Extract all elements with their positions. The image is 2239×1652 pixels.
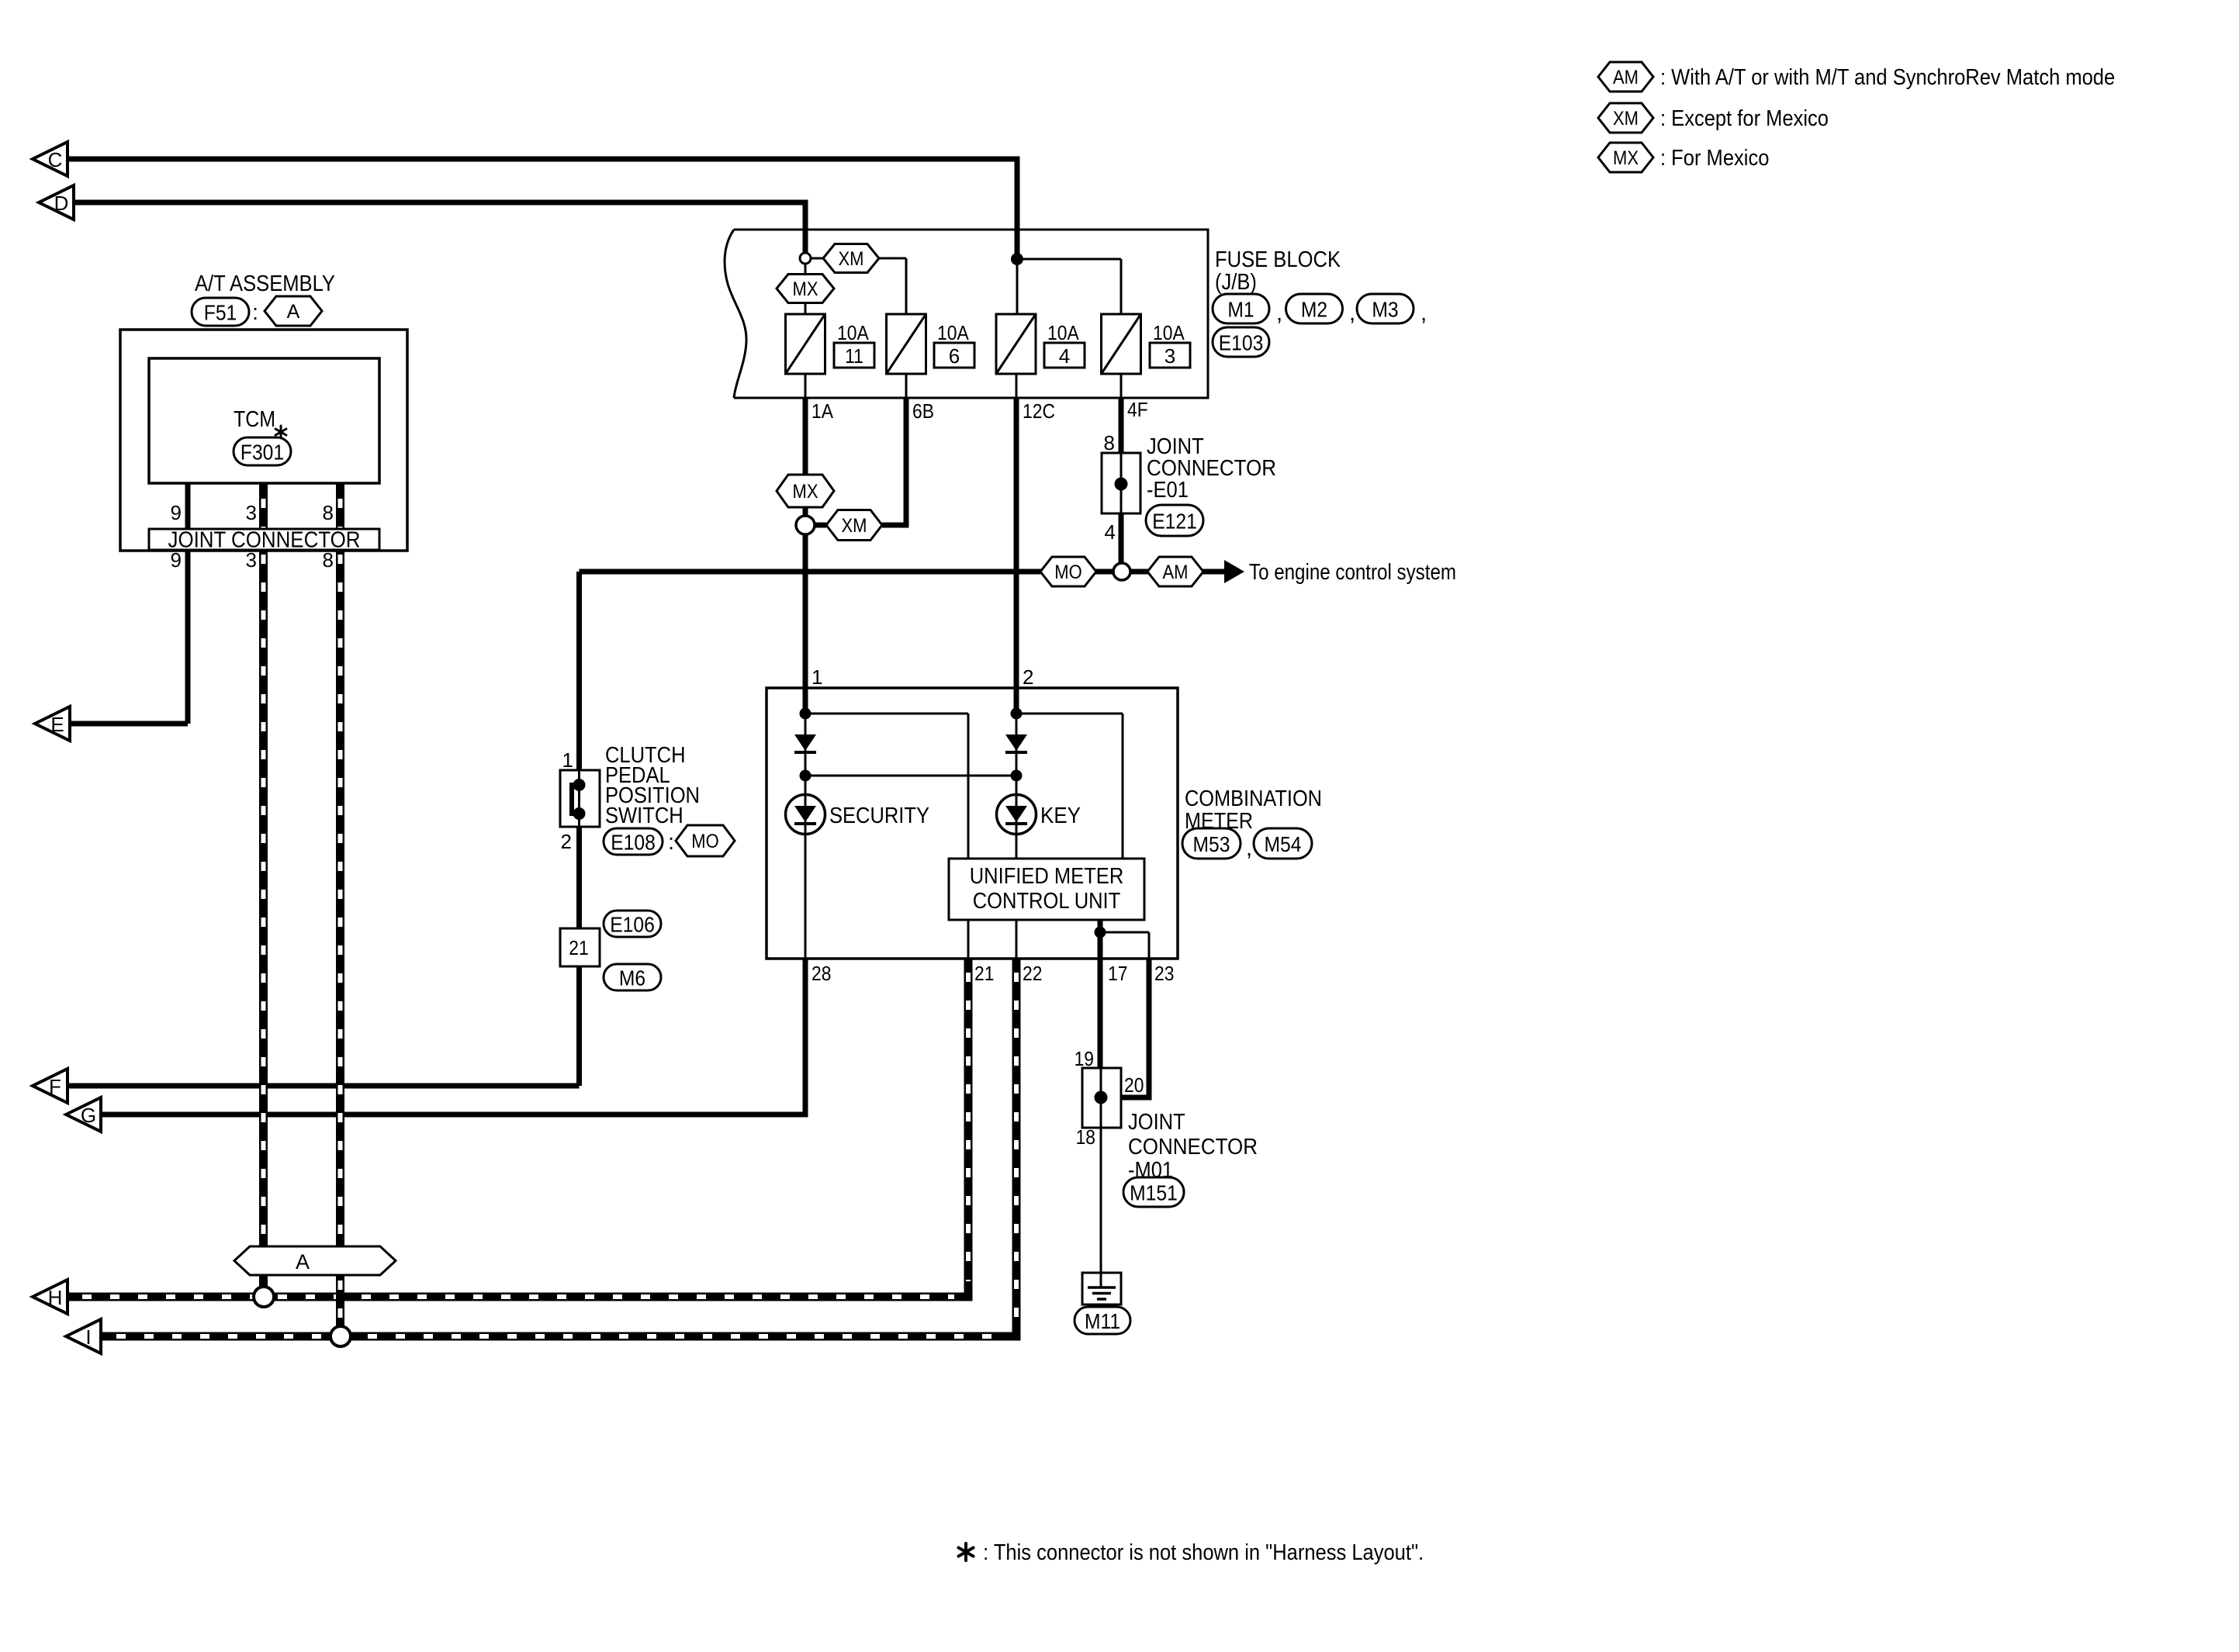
svg-text:MX: MX	[793, 278, 818, 300]
svg-text:: This connector is not shown: : This connector is not shown in "Harnes…	[979, 1540, 1424, 1565]
svg-text:H: H	[48, 1286, 63, 1309]
svg-text:10A: 10A	[837, 321, 869, 344]
fuse number box 3	[1150, 343, 1190, 368]
svg-text:-E01: -E01	[1147, 478, 1189, 503]
svg-text:XM: XM	[1613, 108, 1639, 130]
arrow I	[66, 1319, 101, 1353]
wire 4F	[1119, 398, 1124, 564]
fuse 4 (10A)	[996, 314, 1036, 374]
colon F51-A	[252, 300, 258, 325]
svg-text:10A: 10A	[1047, 321, 1079, 344]
comma M53-M54	[1246, 836, 1252, 861]
svg-text:M2: M2	[1301, 298, 1327, 322]
comma after M3	[1421, 301, 1427, 326]
label pin 17	[1108, 962, 1127, 985]
connector E108	[604, 828, 663, 855]
svg-text:10A: 10A	[1153, 321, 1185, 344]
svg-text:UNIFIED METER: UNIFIED METER	[970, 864, 1124, 889]
svg-text:,: ,	[1421, 301, 1427, 326]
wire meter pin2 internal	[1016, 714, 1018, 859]
svg-text:G: G	[81, 1104, 96, 1127]
svg-text:: For Mexico: : For Mexico	[1660, 146, 1769, 171]
svg-text:C: C	[48, 148, 63, 171]
label 4F	[1127, 398, 1148, 421]
TCM box	[149, 358, 379, 483]
svg-text:22: 22	[1023, 962, 1042, 985]
svg-text:8: 8	[323, 548, 334, 572]
label JOINT CONNECTOR -M01	[1128, 1110, 1258, 1183]
clutch pedal position switch box	[560, 770, 600, 827]
wire 22 dashed	[1012, 959, 1021, 1341]
svg-text:9: 9	[171, 548, 182, 572]
wire meter pin2 branch	[1016, 714, 1123, 859]
label pin 20	[1124, 1073, 1144, 1097]
pin box 21	[560, 928, 600, 966]
arrowhead to engine control system	[1224, 560, 1244, 583]
svg-text:9: 9	[171, 501, 182, 524]
label pins 9 3 8 upper	[171, 501, 334, 524]
svg-text:21: 21	[974, 962, 994, 985]
wire meter crosslink top	[805, 714, 968, 859]
fuse 6 (10A)	[887, 314, 926, 374]
svg-text:1: 1	[812, 665, 822, 689]
svg-text:M53: M53	[1193, 832, 1230, 856]
connector M6	[604, 964, 661, 990]
svg-text:CONNECTOR: CONNECTOR	[1128, 1135, 1258, 1160]
LED SECURITY	[786, 795, 825, 835]
legend hexagon XM	[1598, 103, 1653, 133]
asterisk TCM	[275, 426, 286, 438]
hexagon XM lower	[826, 510, 882, 541]
label pin 1 CPP	[562, 748, 573, 772]
svg-text:8: 8	[1104, 431, 1115, 454]
svg-text:21: 21	[569, 936, 588, 959]
svg-text:10A: 10A	[937, 321, 969, 344]
label pin 1 meter	[812, 665, 822, 689]
hexagon MO small	[676, 825, 735, 856]
svg-text:E106: E106	[610, 913, 655, 937]
svg-text:: With A/T or with M/T and Syn: : With A/T or with M/T and SynchroRev Ma…	[1660, 65, 2115, 90]
svg-text:FUSE BLOCK: FUSE BLOCK	[1215, 247, 1341, 272]
comma after M1	[1276, 301, 1282, 326]
wire 4F fuse feed	[1023, 259, 1121, 314]
svg-text:COMBINATION: COMBINATION	[1185, 786, 1322, 811]
wire meter pin21 internal	[967, 920, 970, 959]
svg-text:To engine control system: To engine control system	[1249, 560, 1456, 585]
svg-text::: :	[252, 300, 258, 325]
svg-text:CONTROL UNIT: CONTROL UNIT	[973, 889, 1121, 914]
label TCM	[234, 407, 275, 432]
legend hexagon MX	[1598, 143, 1653, 172]
wire F	[67, 1083, 580, 1089]
svg-text:(J/B): (J/B)	[1215, 270, 1257, 295]
wire C	[67, 159, 1017, 259]
svg-text:SECURITY: SECURITY	[829, 804, 929, 828]
svg-text:11: 11	[845, 344, 863, 368]
label pin 21	[974, 962, 994, 985]
diode key	[1005, 734, 1027, 752]
wire 12C fuse feed	[1016, 259, 1019, 314]
A/T assembly outer box	[120, 330, 407, 551]
svg-text:A: A	[287, 301, 300, 323]
svg-text:KEY: KEY	[1040, 804, 1081, 828]
joint connector -M01 box	[1082, 1068, 1121, 1128]
label FUSE BLOCK	[1215, 247, 1341, 295]
svg-text:D: D	[54, 192, 69, 215]
fuse number box 6	[934, 343, 974, 368]
svg-text:A: A	[296, 1250, 310, 1274]
wire I dashed	[101, 1332, 1021, 1341]
fuse number box 4	[1044, 343, 1085, 368]
node circle MO-AM	[1113, 563, 1130, 580]
svg-text:M54: M54	[1265, 832, 1302, 856]
connector E103	[1213, 327, 1269, 357]
connector M11	[1075, 1307, 1130, 1334]
arrow G	[66, 1097, 101, 1132]
svg-text:E121: E121	[1152, 510, 1197, 534]
label 10A fuse6	[937, 321, 969, 344]
label SECURITY	[829, 804, 929, 828]
svg-text:18: 18	[1076, 1125, 1095, 1149]
svg-text:1: 1	[562, 748, 573, 772]
svg-text:6B: 6B	[912, 399, 934, 423]
svg-text:1A: 1A	[812, 399, 834, 423]
asterisk note	[959, 1543, 974, 1560]
svg-text:E: E	[50, 713, 64, 736]
label 10A fuse11	[837, 321, 869, 344]
svg-text:AM: AM	[1613, 67, 1639, 88]
svg-text:,: ,	[1246, 836, 1252, 861]
label KEY	[1040, 804, 1081, 828]
svg-text:MO: MO	[691, 831, 718, 852]
label JOINT CONNECTOR -E01	[1147, 434, 1276, 503]
svg-text:E108: E108	[611, 831, 656, 855]
svg-text:2: 2	[1023, 665, 1033, 689]
wire 9	[185, 483, 191, 724]
fuse block (J/B) box	[725, 230, 1208, 398]
svg-text:MX: MX	[793, 481, 818, 503]
wire G	[101, 959, 805, 1115]
hexagon XM upper	[823, 244, 879, 273]
connector M3	[1357, 294, 1414, 323]
label 6B	[912, 399, 934, 423]
fuse 3 (10A)	[1102, 314, 1141, 374]
svg-text:8: 8	[323, 501, 334, 524]
arrow H	[33, 1280, 67, 1314]
unified meter control unit box	[949, 859, 1144, 920]
ground M11	[1082, 1273, 1121, 1305]
legend text MX	[1660, 146, 1769, 171]
diode security	[794, 734, 816, 752]
label pin 2 meter	[1023, 665, 1033, 689]
connector M2	[1286, 294, 1343, 323]
note text	[979, 1540, 1424, 1565]
wire 3 dashed	[259, 483, 268, 1297]
label pin 23	[1154, 962, 1174, 985]
svg-text:20: 20	[1124, 1073, 1144, 1097]
label 12C	[1023, 399, 1055, 423]
svg-text:AM: AM	[1163, 562, 1189, 583]
junction dot key mid	[1011, 770, 1023, 782]
wire clutch pedal switch chain	[576, 572, 582, 1086]
connector E121	[1146, 505, 1203, 536]
wire H dashed	[67, 1293, 973, 1301]
wire 23	[1100, 932, 1149, 1097]
legend hexagon AM	[1598, 62, 1653, 92]
wire 18 to ground	[1100, 1128, 1102, 1287]
legend text XM	[1660, 106, 1829, 131]
svg-text:XM: XM	[839, 248, 864, 270]
svg-text:19: 19	[1075, 1047, 1094, 1070]
label 10A fuse3	[1153, 321, 1185, 344]
wire fuse outputs	[805, 374, 1121, 398]
junction circle wire8-I	[330, 1326, 351, 1346]
svg-text:4: 4	[1105, 520, 1116, 544]
svg-text:I: I	[85, 1325, 91, 1349]
svg-text:SWITCH: SWITCH	[605, 804, 683, 828]
connector M53	[1182, 828, 1241, 859]
arrow F	[33, 1069, 67, 1103]
label pins 9 3 8 lower	[171, 548, 334, 572]
wire XM upper link	[811, 258, 906, 314]
wire 8 dashed	[336, 483, 344, 1336]
comma after M2	[1349, 301, 1355, 326]
svg-text:M11: M11	[1085, 1309, 1120, 1333]
wire meter pin1 internal	[805, 714, 807, 959]
svg-text:3: 3	[246, 501, 257, 524]
junction circle wire3-H	[254, 1287, 274, 1307]
arrow E	[35, 707, 70, 741]
connector M54	[1254, 828, 1312, 859]
svg-text:12C: 12C	[1023, 399, 1055, 423]
svg-text:: Except for Mexico: : Except for Mexico	[1660, 106, 1829, 131]
combination meter box	[767, 688, 1178, 959]
label pin 8 E01	[1104, 431, 1115, 454]
svg-text:M1: M1	[1227, 298, 1254, 322]
label 1A	[812, 399, 834, 423]
label pin 4 E01	[1105, 520, 1116, 544]
hexagon MX lower	[777, 475, 834, 507]
label pin 2 CPP	[561, 830, 572, 853]
svg-text:,: ,	[1349, 301, 1355, 326]
svg-text:3: 3	[1164, 344, 1175, 368]
fuse 11 (10A)	[786, 314, 825, 374]
svg-text:28: 28	[812, 962, 831, 985]
connector F301	[234, 437, 291, 465]
wire 21 dashed	[964, 959, 973, 1301]
junction dot in M01	[1095, 1091, 1108, 1104]
svg-text:A/T ASSEMBLY: A/T ASSEMBLY	[195, 271, 335, 296]
junction dot 12C top	[1011, 253, 1023, 265]
wire E	[70, 721, 188, 727]
svg-text:M6: M6	[619, 966, 645, 990]
label to engine control system	[1249, 560, 1456, 585]
svg-text:XM: XM	[842, 515, 867, 537]
svg-text:JOINT: JOINT	[1128, 1110, 1185, 1135]
wire 6B	[815, 398, 906, 525]
legend text AM	[1660, 65, 2115, 90]
wire D	[74, 202, 805, 254]
svg-text:3: 3	[246, 548, 257, 572]
hexagon AM	[1147, 557, 1203, 586]
wire 1A	[803, 398, 808, 714]
svg-text::: :	[668, 830, 674, 855]
arrow D	[39, 185, 74, 219]
svg-text:TCM: TCM	[234, 407, 275, 432]
hexagon A big	[234, 1246, 396, 1275]
svg-text:4F: 4F	[1127, 398, 1148, 421]
switch contact dots	[573, 779, 586, 820]
junction dot in E01	[1115, 478, 1128, 491]
joint connector -E01 box	[1102, 453, 1140, 513]
wire MO-AM to engine	[580, 569, 1225, 575]
switch bracket	[572, 785, 580, 814]
svg-text:M151: M151	[1130, 1181, 1178, 1205]
label CLUTCH PEDAL POSITION SWITCH	[605, 743, 700, 828]
connector M1	[1213, 294, 1269, 323]
wire 17	[1098, 920, 1103, 1068]
label pin 19	[1075, 1047, 1094, 1070]
label A/T ASSEMBLY	[195, 271, 335, 296]
connector M151	[1123, 1177, 1184, 1207]
svg-text:2: 2	[561, 830, 572, 853]
svg-text:F51: F51	[204, 301, 237, 325]
junction dot pin1 top	[800, 708, 812, 720]
label pin 18	[1076, 1125, 1095, 1149]
svg-text:MO: MO	[1054, 562, 1081, 583]
svg-text:23: 23	[1154, 962, 1174, 985]
connector E106	[604, 911, 661, 937]
label COMBINATION METER	[1185, 786, 1322, 834]
wire 12C	[1014, 398, 1019, 714]
LED KEY	[997, 795, 1036, 835]
label 10A fuse4	[1047, 321, 1079, 344]
svg-text:M3: M3	[1372, 298, 1398, 322]
node circle below MX	[796, 516, 815, 534]
hexagon MO	[1040, 557, 1096, 586]
arrow C	[33, 142, 67, 176]
svg-text:F301: F301	[241, 441, 284, 465]
junction dot pin2 top	[1011, 708, 1023, 720]
svg-text:E103: E103	[1219, 331, 1264, 355]
wire meter pin22 internal	[1016, 920, 1018, 959]
joint connector strip	[149, 528, 379, 553]
wire fuse-block feed MX upper link	[805, 264, 807, 314]
hexagon MX upper	[777, 275, 834, 303]
svg-text:4: 4	[1059, 344, 1070, 368]
node circle on D wire	[800, 253, 811, 264]
svg-text:6: 6	[949, 344, 960, 368]
hexagon A small	[265, 296, 322, 326]
wire meter crosslink mid	[805, 775, 1016, 777]
label pin 28	[812, 962, 831, 985]
junction dot 17-23	[1095, 927, 1106, 938]
svg-text:F: F	[49, 1075, 61, 1098]
svg-text:MX: MX	[1613, 147, 1639, 169]
connector F51	[192, 298, 249, 326]
svg-text:17: 17	[1108, 962, 1127, 985]
fuse number box 11	[834, 343, 874, 368]
svg-text:,: ,	[1276, 301, 1282, 326]
junction dot security mid	[800, 770, 812, 782]
label pin 22	[1023, 962, 1042, 985]
colon E108-MO	[668, 830, 674, 855]
